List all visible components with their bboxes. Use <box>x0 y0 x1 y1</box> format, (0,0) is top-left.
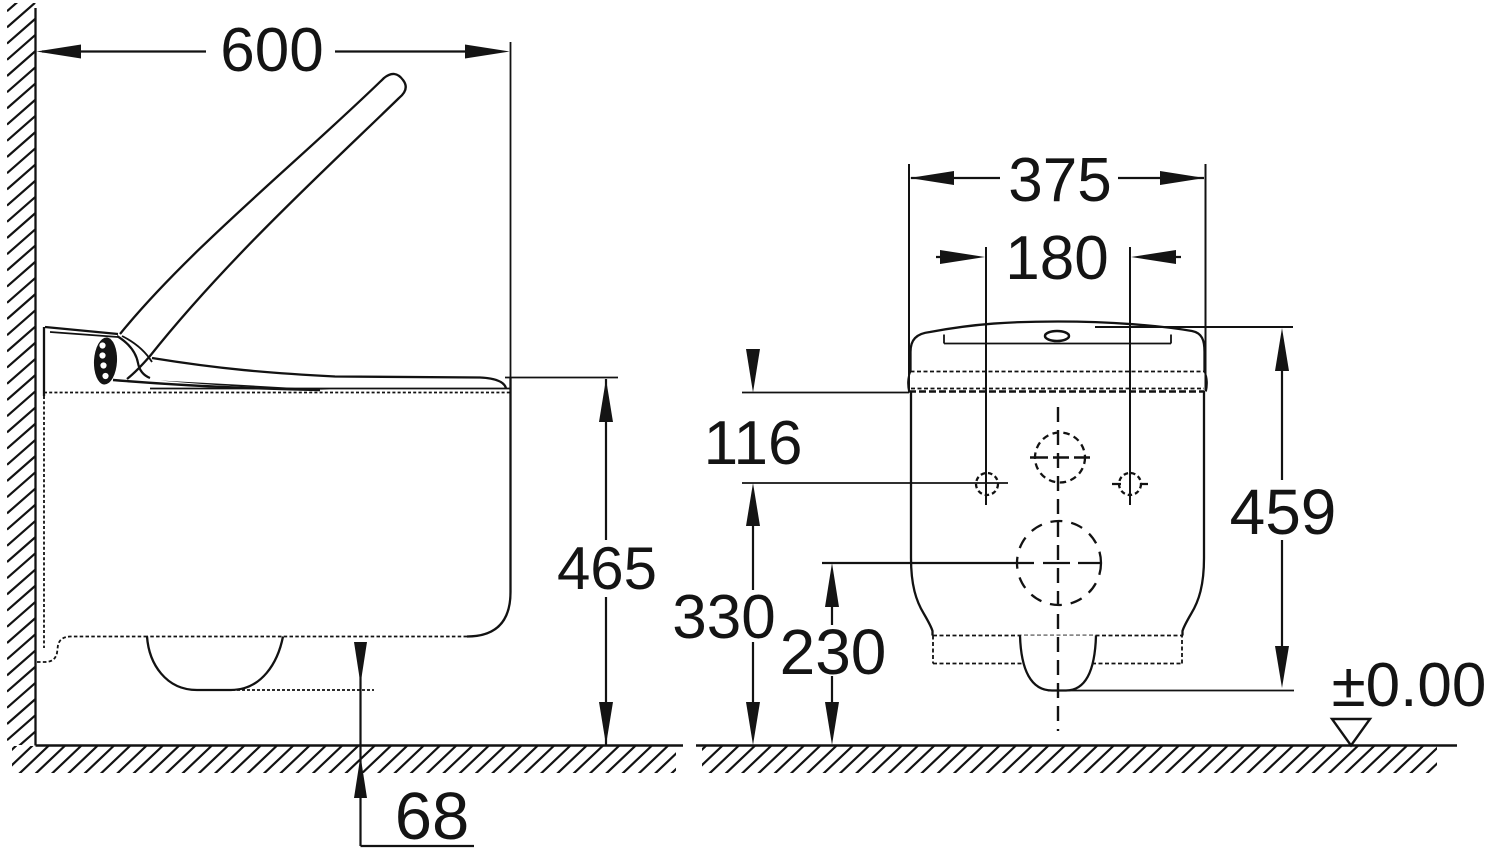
svg-text:±0.00: ±0.00 <box>1332 651 1487 720</box>
svg-text:230: 230 <box>780 616 887 688</box>
svg-text:116: 116 <box>704 409 803 478</box>
svg-text:68: 68 <box>395 779 470 854</box>
svg-text:180: 180 <box>1005 224 1108 293</box>
svg-text:600: 600 <box>220 16 323 85</box>
svg-text:375: 375 <box>1008 146 1111 215</box>
svg-text:465: 465 <box>557 535 657 602</box>
svg-text:459: 459 <box>1230 476 1337 548</box>
svg-text:330: 330 <box>672 583 775 652</box>
